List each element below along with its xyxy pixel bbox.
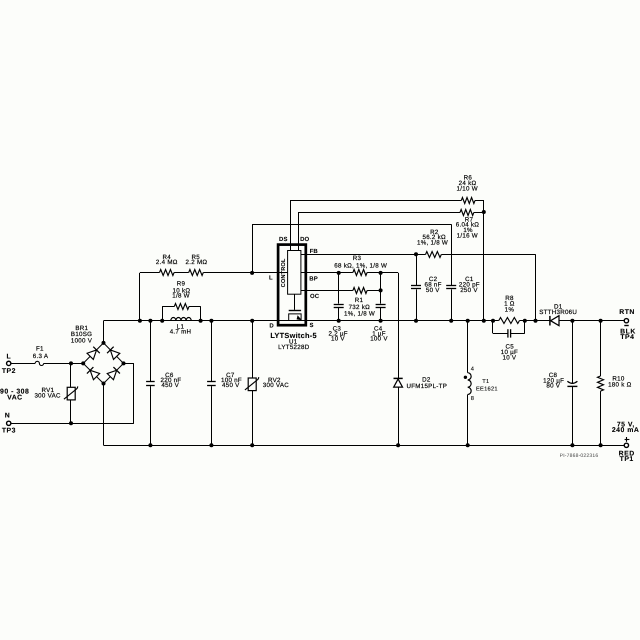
- wire C6 upper lead: [150, 321, 152, 382]
- wire T1 lower lead: [467, 395, 469, 446]
- svg-text:250 V: 250 V: [460, 287, 478, 294]
- svg-text:1/16 W: 1/16 W: [457, 232, 478, 239]
- svg-text:DS: DS: [279, 236, 288, 243]
- bridge diode bottom-right: [107, 367, 120, 380]
- label U1 part number: [278, 339, 310, 351]
- svg-text:TP4: TP4: [620, 334, 634, 341]
- wire RV2 lower lead: [252, 391, 254, 446]
- label F1 value: [33, 346, 49, 360]
- svg-text:TP3: TP3: [2, 428, 16, 435]
- wire C2 upper lead: [416, 254, 418, 285]
- diode D2: [394, 378, 403, 387]
- svg-text:PI-7868-022316: PI-7868-022316: [560, 453, 599, 459]
- T1 pin numbers: [471, 367, 474, 403]
- svg-text:180 k Ω: 180 k Ω: [608, 381, 632, 388]
- varistor RV1: [64, 386, 78, 400]
- svg-text:10 V: 10 V: [331, 336, 345, 343]
- svg-text:TP2: TP2: [2, 368, 16, 375]
- resistor R5: [189, 270, 204, 276]
- svg-text:450 V: 450 V: [161, 382, 179, 389]
- capacitor C4: [376, 304, 386, 306]
- svg-text:T1: T1: [482, 379, 489, 385]
- junction C2 at bus: [414, 319, 418, 323]
- wire FB drop to bus: [535, 254, 537, 321]
- wire bottom rail: [104, 445, 625, 447]
- svg-text:N: N: [5, 413, 10, 420]
- wire C3 upper lead: [338, 273, 340, 304]
- wire C8 lower lead: [572, 387, 574, 445]
- svg-text:1%, 1/8 W: 1%, 1/8 W: [417, 239, 448, 246]
- wire R4 to R5: [174, 272, 189, 274]
- wire DO line to R7: [298, 212, 460, 214]
- wire bridge plus output up to bus: [103, 321, 105, 343]
- svg-text:6.3 A: 6.3 A: [33, 353, 49, 360]
- junction RV2 at bus: [250, 319, 254, 323]
- junction C6 at bus: [148, 319, 152, 323]
- wire L input from TP2 to fuse: [11, 363, 36, 365]
- svg-text:L: L: [7, 354, 12, 361]
- capacitor C6: [146, 381, 155, 383]
- label BR1 value: [71, 325, 93, 344]
- node RTN output label: [619, 309, 636, 341]
- wire C3 lower lead: [338, 308, 340, 321]
- label R7 value: [456, 216, 480, 239]
- bridge diode top-left: [87, 347, 100, 360]
- svg-text:R3: R3: [353, 255, 362, 262]
- label R9 value: [172, 281, 190, 300]
- wire R3 to corner: [367, 272, 398, 274]
- wire D2 anode to bottom rail: [398, 387, 400, 445]
- bridge BR1 diamond outline: [83, 343, 123, 384]
- wire C1 upper lead: [451, 224, 453, 285]
- node TP2 terminal: [7, 361, 11, 365]
- svg-text:240 mA: 240 mA: [612, 427, 640, 434]
- svg-text:RTN: RTN: [619, 309, 635, 316]
- wire DS line to R6: [291, 200, 462, 202]
- svg-text:450 V: 450 V: [222, 382, 240, 389]
- wire bus R8 to D1: [520, 320, 550, 322]
- resistor R3: [353, 270, 367, 276]
- label RV2 value: [263, 377, 290, 389]
- label C8 value: [543, 372, 564, 390]
- wire C5 right horizontal: [511, 333, 525, 335]
- wire C5 left leg: [492, 321, 494, 334]
- node TP3 terminal: [7, 421, 11, 425]
- capacitor C3: [334, 304, 344, 306]
- node TP4 terminal: [624, 319, 628, 323]
- op-amp U1 outer box: [278, 245, 306, 326]
- wire C5 right leg: [524, 321, 526, 334]
- capacitor C8: [567, 381, 577, 386]
- U1 pin labels DS DO: [279, 236, 310, 243]
- wire R7 to junction: [474, 212, 484, 214]
- svg-text:100 V: 100 V: [370, 336, 388, 343]
- junction C5 left at bus: [491, 319, 495, 323]
- svg-text:F1: F1: [36, 346, 44, 353]
- wire T1 upper lead: [467, 321, 469, 373]
- label R8 value: [504, 295, 515, 314]
- capacitor C5: [508, 329, 511, 337]
- label C1 value: [459, 276, 480, 294]
- label R6 value: [457, 175, 478, 193]
- label R2 value: [417, 229, 448, 247]
- label R10 value: [608, 376, 632, 389]
- resistor R6: [461, 198, 475, 204]
- wire R6 to corner: [475, 200, 484, 202]
- resistor R1: [353, 288, 367, 294]
- wire R2 to corner: [441, 254, 535, 256]
- wire BP pin to C3 node: [301, 272, 353, 274]
- wire L-line left corner vertical: [139, 273, 141, 321]
- svg-text:1%, 1/8 W: 1%, 1/8 W: [344, 310, 375, 317]
- inductor L1: [171, 318, 191, 321]
- label R3 value: [334, 255, 387, 269]
- capacitor C1: [446, 285, 456, 287]
- junction T1 at bus: [466, 319, 470, 323]
- U1 control block: [288, 251, 301, 295]
- wire R1 to C4 node: [367, 290, 381, 292]
- svg-text:CONTROL: CONTROL: [281, 258, 287, 287]
- wire DO pin riser: [298, 212, 300, 251]
- RTN minus sign: [624, 325, 628, 327]
- wire R9 right horizontal: [189, 306, 201, 308]
- svg-text:1/10 W: 1/10 W: [457, 186, 478, 193]
- wire RV1 top lead: [70, 363, 72, 387]
- svg-text:80 V: 80 V: [546, 383, 560, 390]
- label input voltage range: [0, 389, 29, 402]
- junction bridge right vertex: [122, 361, 126, 365]
- junction bridge left vertex: [81, 361, 85, 365]
- T1 polarity dot: [464, 376, 467, 379]
- junction T1 at bottom rail: [466, 443, 470, 447]
- junction R6R7 at bus: [482, 319, 486, 323]
- capacitor C7: [207, 381, 216, 383]
- svg-text:1%: 1%: [505, 307, 515, 314]
- label C3 value: [329, 326, 348, 343]
- wire L-line to R4: [140, 272, 160, 274]
- U1 pin labels L D S: [269, 275, 314, 330]
- svg-text:UFM15PL-TP: UFM15PL-TP: [406, 383, 447, 390]
- junction FB drop at bus: [534, 319, 538, 323]
- junction C3 at BP line: [337, 271, 341, 275]
- junction R4 line at bus: [138, 319, 142, 323]
- U1 mosfet source arrow: [297, 315, 302, 320]
- svg-text:S: S: [309, 322, 313, 329]
- wire R9 right leg: [200, 306, 202, 321]
- label C5 value: [501, 344, 518, 362]
- wire R5 to U1 L pin: [203, 272, 287, 274]
- svg-text:300 VAC: 300 VAC: [34, 393, 61, 400]
- U1 mosfet channel: [289, 314, 301, 321]
- junction RV1-N node: [69, 421, 73, 425]
- label C4 value: [370, 326, 388, 343]
- node L input label: [2, 354, 16, 375]
- label R5 value: [186, 254, 208, 266]
- junction D2 at bottom rail: [396, 443, 400, 447]
- wire FB pin to C2 node: [301, 254, 426, 256]
- wire L-node riser: [252, 224, 254, 273]
- junction C8 at bottom rail: [570, 443, 574, 447]
- junction L-node riser: [250, 271, 254, 275]
- junction C4 at bus: [379, 319, 383, 323]
- junction C6 at bottom rail: [148, 443, 152, 447]
- junction R9 right at bus: [199, 319, 203, 323]
- svg-text:4.7 mH: 4.7 mH: [170, 329, 192, 336]
- junction C3 at bus: [337, 319, 341, 323]
- U1 mosfet gate lead: [294, 294, 296, 310]
- svg-text:300 VAC: 300 VAC: [263, 382, 290, 389]
- label D1 value: [539, 303, 577, 316]
- label R4 value: [156, 254, 178, 266]
- junction R9 left at bus: [160, 319, 164, 323]
- node TP1 terminal: [624, 443, 628, 447]
- resistor R4: [160, 270, 175, 276]
- wire C2 lower lead: [416, 289, 418, 320]
- wire fuse to bridge left node: [44, 363, 84, 365]
- label T1 value: [476, 379, 498, 392]
- wire D1 to RTN terminal: [559, 320, 624, 322]
- resistor R10: [598, 376, 604, 391]
- fuse F1: [35, 361, 43, 365]
- junction fuse-RV1 node: [69, 361, 73, 365]
- svg-text:1/8 W: 1/8 W: [172, 293, 190, 300]
- diode D1: [550, 316, 559, 326]
- varistor RV2: [245, 377, 259, 391]
- junction C5 right at bus: [523, 319, 527, 323]
- U1 pin labels FB BP OC: [309, 248, 319, 300]
- wire RV1 bottom lead: [70, 400, 72, 423]
- label D2 value: [406, 377, 447, 390]
- svg-text:68 kΩ, 1%, 1/8 W: 68 kΩ, 1%, 1/8 W: [334, 263, 387, 270]
- U1 mosfet gate bar: [289, 310, 301, 312]
- label C7 value: [221, 372, 242, 389]
- label C6 value: [161, 372, 182, 389]
- bridge diode bottom-left: [87, 367, 100, 380]
- svg-text:BP: BP: [309, 275, 318, 282]
- resistor R9: [174, 304, 189, 310]
- label L1 value: [170, 323, 192, 335]
- wire C1 lower lead: [451, 289, 453, 320]
- svg-text:EE1621: EE1621: [476, 386, 498, 392]
- wire C7 upper lead: [211, 321, 213, 382]
- resistor R2: [426, 252, 442, 258]
- label C2 value: [424, 276, 441, 294]
- junction C7 at bottom rail: [209, 443, 213, 447]
- svg-text:8: 8: [471, 396, 474, 402]
- wire R6R7 common drop to bus: [483, 200, 485, 321]
- svg-text:DO: DO: [300, 236, 309, 243]
- wire R10 lower lead: [600, 391, 602, 445]
- wire N input from TP3 to jog: [11, 423, 134, 425]
- wire C8 upper lead: [572, 321, 574, 384]
- wire bridge minus output down to bottom rail: [103, 384, 105, 446]
- junction bridge bottom vertex: [102, 382, 106, 386]
- junction C1 at bus: [449, 319, 453, 323]
- label RV1 value: [34, 387, 61, 400]
- wire C5 left horizontal: [493, 333, 508, 335]
- wire main bus left section: [104, 320, 499, 322]
- svg-text:FB: FB: [310, 248, 319, 255]
- svg-text:OC: OC: [310, 293, 320, 300]
- wire C4 upper lead: [380, 273, 382, 304]
- label R1 value: [344, 297, 375, 318]
- junction RV2 at bottom rail: [250, 443, 254, 447]
- wire C7 lower lead: [211, 386, 213, 445]
- svg-text:2.2 MΩ: 2.2 MΩ: [186, 259, 208, 266]
- wire OC pin to R1: [301, 290, 353, 292]
- wire bridge right vertex jog horizontal: [124, 363, 134, 365]
- wire L-node top horizontal: [252, 224, 451, 226]
- svg-text:LYT5228D: LYT5228D: [278, 344, 310, 351]
- svg-text:4: 4: [471, 367, 474, 373]
- svg-text:L: L: [269, 275, 273, 282]
- node output plus label: [612, 422, 640, 463]
- junction C4 at BP line: [379, 271, 383, 275]
- svg-text:2.4 MΩ: 2.4 MΩ: [156, 259, 178, 266]
- svg-text:50 V: 50 V: [426, 287, 440, 294]
- bridge diode top-right: [107, 347, 120, 360]
- wire R9 left horizontal: [162, 306, 174, 308]
- wire R9 left leg: [162, 306, 164, 321]
- junction C8 at RTN line: [570, 319, 574, 323]
- wire BP node drop to D2: [398, 273, 400, 378]
- resistor R8: [499, 318, 520, 324]
- svg-text:TP1: TP1: [620, 456, 634, 463]
- inductor T1 winding: [468, 373, 471, 395]
- junction R7 right: [482, 210, 486, 214]
- wire R10 upper lead: [600, 321, 602, 376]
- svg-text:LYTSwitch-5: LYTSwitch-5: [270, 331, 317, 340]
- svg-text:10 V: 10 V: [502, 355, 516, 362]
- junction bridge top vertex: [102, 341, 106, 345]
- junction R10 at bottom rail: [599, 443, 603, 447]
- capacitor C2: [411, 285, 421, 287]
- svg-text:STTH3R06U: STTH3R06U: [539, 309, 577, 316]
- junction C7 at bus: [209, 319, 213, 323]
- wire DS pin riser: [290, 200, 292, 251]
- node N input label: [2, 413, 16, 435]
- junction C4 at OC line: [379, 288, 383, 292]
- wire RV2 upper lead: [252, 321, 254, 378]
- svg-text:VAC: VAC: [7, 394, 23, 401]
- junction R10 at RTN line: [599, 319, 603, 323]
- resistor R7: [460, 210, 474, 216]
- svg-text:1000 V: 1000 V: [71, 337, 93, 344]
- wire C4 lower lead: [380, 308, 382, 321]
- wire C6 lower lead: [150, 386, 152, 445]
- output plus sign: [625, 437, 630, 442]
- svg-text:D: D: [269, 323, 274, 330]
- junction C2 at FB line: [414, 252, 418, 256]
- wire bridge right jog vertical: [133, 363, 135, 423]
